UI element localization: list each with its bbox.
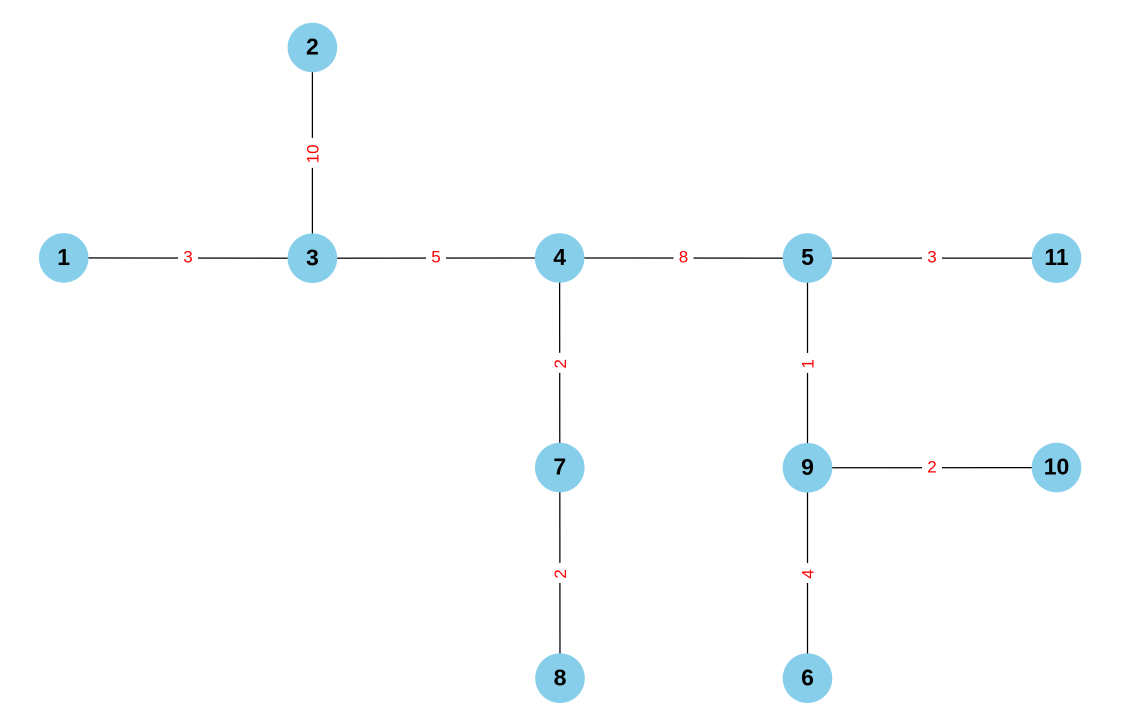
svg-text:10: 10 — [1044, 454, 1070, 480]
wire 9-10 — [808, 467, 1057, 469]
svg-text:3: 3 — [306, 244, 319, 270]
svg-text:2: 2 — [306, 34, 319, 60]
node 1 — [39, 233, 89, 283]
edge label 2 (7-8) — [551, 563, 570, 583]
wire 5-9 — [807, 258, 809, 468]
svg-text:6: 6 — [801, 664, 814, 690]
wire 3-4 — [312, 257, 559, 259]
wire 4-5 — [560, 257, 808, 259]
edge label 1 (5-9) — [799, 353, 818, 373]
svg-text:9: 9 — [801, 454, 814, 480]
edge label 4 (9-6) — [799, 563, 818, 583]
node 5 — [783, 233, 833, 283]
node 10 — [1032, 443, 1082, 493]
svg-text:10: 10 — [304, 144, 323, 163]
svg-text:3: 3 — [183, 248, 192, 267]
node 11 — [1032, 233, 1082, 283]
svg-text:8: 8 — [554, 664, 567, 690]
svg-text:11: 11 — [1044, 244, 1069, 270]
node 7 — [535, 443, 585, 493]
wire 9-6 — [807, 468, 809, 678]
node 2 — [288, 23, 338, 73]
svg-text:2: 2 — [927, 457, 936, 476]
svg-text:4: 4 — [553, 244, 566, 270]
wire 1-3 — [64, 257, 313, 259]
svg-text:5: 5 — [801, 244, 814, 270]
edge label 5 (3-4) — [426, 248, 446, 267]
node 4 — [535, 233, 585, 283]
wire 2-3 — [311, 48, 313, 259]
node 9 — [783, 443, 833, 493]
wire 5-11 — [808, 257, 1057, 259]
svg-text:5: 5 — [431, 248, 440, 267]
edge label 8 (4-5) — [674, 248, 694, 267]
wire 4-7 — [559, 258, 561, 468]
wire 7-8 — [559, 468, 561, 679]
svg-text:3: 3 — [927, 248, 936, 267]
svg-text:1: 1 — [799, 359, 818, 368]
svg-text:2: 2 — [551, 569, 570, 578]
edge label 2 (9-10) — [922, 457, 942, 476]
edge label 3 (5-11) — [922, 248, 942, 267]
svg-text:4: 4 — [799, 569, 818, 578]
svg-text:2: 2 — [551, 359, 570, 368]
edge label 2 (4-7) — [551, 353, 570, 373]
edge label 3 (1-3) — [178, 248, 198, 267]
node 6 — [783, 653, 833, 703]
edge label 10 (2-3) — [303, 138, 322, 168]
svg-text:1: 1 — [57, 244, 70, 270]
node 8 — [535, 653, 585, 703]
node 3 — [288, 233, 338, 283]
svg-text:7: 7 — [553, 454, 566, 480]
svg-text:8: 8 — [679, 248, 688, 267]
